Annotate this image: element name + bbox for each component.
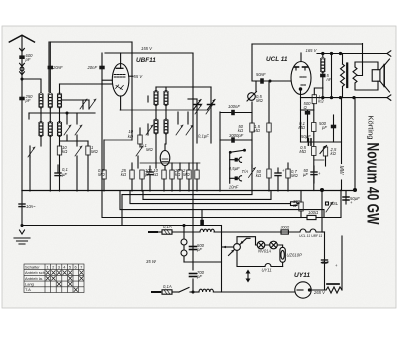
svg-text:55 V: 55 V [134,74,144,79]
svg-text:kΩ: kΩ [256,173,262,178]
svg-text:UCL 11 UBF 11: UCL 11 UBF 11 [299,234,322,238]
svg-text:pF: pF [196,247,202,252]
svg-text:300Ω: 300Ω [281,226,290,230]
svg-text:MΩ: MΩ [183,172,190,177]
svg-text:µF: µF [62,172,67,177]
svg-text:Antrieb sch.: Antrieb sch. [25,270,46,275]
svg-text:0,1A: 0,1A [163,284,172,289]
svg-text:MΩ: MΩ [253,128,260,133]
svg-text:kΩ: kΩ [238,128,244,133]
svg-text:UCL 11: UCL 11 [266,56,288,63]
svg-text:0,1A: 0,1A [163,224,172,229]
svg-text:pF: pF [25,98,31,103]
svg-text:kΩ: kΩ [331,151,337,156]
svg-text:T/A: T/A [242,169,249,174]
svg-text:MΩ: MΩ [146,147,153,152]
svg-text:kΩ: kΩ [121,172,127,177]
svg-text:UY11: UY11 [262,268,272,273]
svg-text:kΩ: kΩ [153,172,159,177]
svg-text:MΩ: MΩ [299,149,306,154]
svg-text:kΩ: kΩ [318,99,324,104]
svg-text:3000pF: 3000pF [229,133,244,138]
svg-text:8µF: 8µF [322,260,330,265]
svg-text:MΩ: MΩ [291,173,298,178]
svg-text:0,5µF: 0,5µF [229,166,240,171]
svg-text:165 V: 165 V [306,48,318,53]
svg-text:UZ610P: UZ610P [287,253,303,258]
svg-text:Schalter: Schalter [25,264,40,269]
svg-text:µF: µF [303,172,308,177]
svg-text:Lang: Lang [25,282,35,287]
svg-text:MΩ: MΩ [91,149,98,154]
svg-text:kΩ: kΩ [62,149,68,154]
svg-text:UY11: UY11 [294,272,310,279]
svg-text:100nF: 100nF [228,104,240,109]
svg-text:265 V: 265 V [313,290,326,295]
svg-text:Novum 40 GW: Novum 40 GW [364,143,383,225]
svg-text:nF: nF [327,77,332,82]
svg-text:pF: pF [196,274,202,279]
svg-text:10nF: 10nF [229,185,239,190]
svg-text:T.A: T.A [25,287,31,292]
svg-text:50nF: 50nF [256,72,266,77]
svg-text:NV01A: NV01A [258,249,271,254]
svg-text:Antrieb la.: Antrieb la. [25,276,43,281]
svg-text:MW: MW [338,166,344,176]
svg-text:pF: pF [25,57,31,62]
svg-text:MΩ: MΩ [256,98,263,103]
svg-text:Körting: Körting [367,116,376,140]
svg-text:NSL: NSL [330,201,339,206]
svg-text:50µF: 50µF [301,134,311,139]
svg-text:10n~: 10n~ [26,204,36,209]
svg-text:20nF: 20nF [86,65,97,70]
svg-text:0,1µF: 0,1µF [198,134,209,139]
svg-text:MΩ: MΩ [298,125,305,130]
svg-text:100Ω: 100Ω [308,210,319,215]
svg-text:pF: pF [144,172,150,177]
svg-text:20nF: 20nF [52,65,63,70]
svg-text:pF: pF [321,125,327,130]
svg-text:MΩ: MΩ [98,172,105,177]
svg-text:UBF11: UBF11 [136,57,156,64]
svg-text:35 W: 35 W [146,259,157,264]
svg-text:kΩ: kΩ [128,134,134,139]
svg-text:155 V: 155 V [141,46,153,51]
svg-text:kΩ: kΩ [175,172,181,177]
